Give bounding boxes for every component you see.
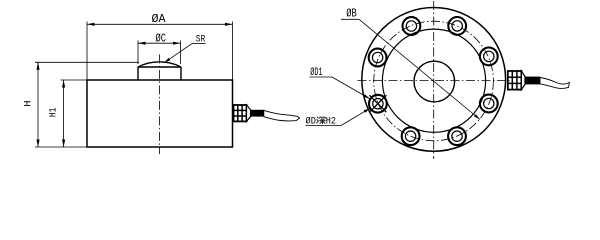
- bolt hole 5 (247.5°): [402, 127, 420, 145]
- svg-text:ØA: ØA: [152, 13, 166, 26]
- bolt hole 4 (202.5° with thread cross): [369, 95, 387, 113]
- ØD1 leader: [332, 77, 370, 99]
- left cable gland block: [234, 105, 247, 121]
- dim ØC line: [138, 42, 181, 44]
- ØD深H2 leader shelf: [306, 125, 342, 127]
- left cable sleeve (black): [251, 110, 265, 117]
- left cable: [264, 110, 300, 121]
- centerline left view: [159, 54, 161, 154]
- dim ØA extension left: [86, 22, 88, 81]
- bolt hole 3 (157.5°): [369, 49, 387, 67]
- bolt hole 2 (112.5°): [403, 17, 421, 35]
- bolt hole 1 (67.5°): [448, 17, 466, 35]
- horizontal centerline: [358, 80, 510, 82]
- left gland cone: [247, 105, 251, 121]
- dim ØA extension right: [232, 22, 234, 81]
- boss left side: [137, 67, 139, 80]
- right gland cone: [521, 71, 525, 90]
- bolt circle (dash-dot): [374, 21, 494, 141]
- dim H extension top: [35, 61, 139, 63]
- dim H1 line: [63, 80, 65, 147]
- right cable sleeve (black): [525, 77, 540, 85]
- svg-text:ØB: ØB: [346, 7, 357, 20]
- bottom extension line: [35, 146, 87, 148]
- glyph 深 (depth) drawn as strokes: [317, 117, 326, 124]
- dim H line: [37, 62, 39, 147]
- boss right side: [180, 67, 182, 80]
- SR leader shelf: [192, 43, 206, 45]
- raised face circle: [382, 29, 485, 132]
- center hole: [414, 61, 455, 102]
- spherical dome SR: [138, 62, 181, 67]
- ØD深H2 label text: [306, 116, 337, 128]
- svg-text:ØC: ØC: [156, 33, 167, 46]
- right cable gland block: [508, 71, 522, 90]
- SR leader: [164, 44, 192, 63]
- vertical centerline: [433, 1, 435, 159]
- body outline: [87, 80, 233, 147]
- ØD深H2 leader: [341, 108, 370, 125]
- svg-text:H1: H1: [48, 108, 60, 118]
- svg-text:H: H: [23, 100, 35, 106]
- right cable: [540, 78, 569, 89]
- boss top seat line: [138, 66, 181, 68]
- bolt hole 7 (337.5°): [480, 95, 498, 113]
- bolt hole 8 (22.5°): [480, 48, 498, 66]
- ØB leader shelf: [341, 18, 359, 20]
- ØD1 leader shelf: [310, 76, 333, 78]
- dim ØC extension right: [180, 41, 182, 65]
- flange outer circle: [362, 8, 506, 152]
- dim H1 extension top: [61, 79, 88, 81]
- ØB leader: [359, 19, 480, 119]
- bolt hole 6 (292.5°): [448, 127, 466, 145]
- dim ØA line: [87, 23, 233, 25]
- dim ØC extension left: [137, 41, 139, 65]
